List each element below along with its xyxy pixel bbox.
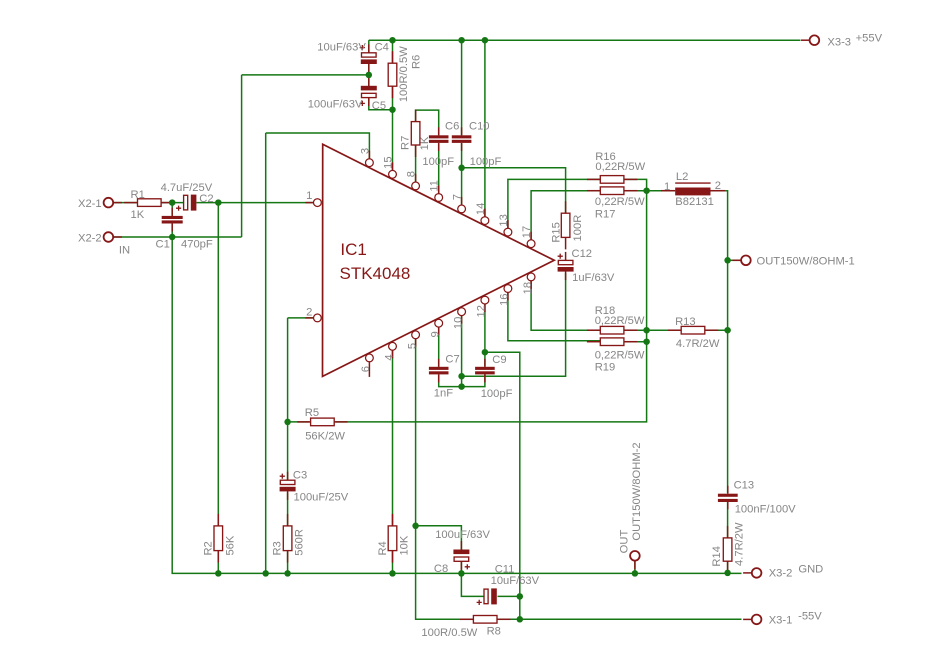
capacitor C1 bbox=[162, 208, 183, 232]
junction R4/bus bbox=[389, 570, 396, 577]
svg-text:R17: R17 bbox=[595, 209, 616, 221]
svg-text:C7: C7 bbox=[445, 353, 459, 365]
capacitor C10 bbox=[452, 127, 472, 151]
wire ground bus bbox=[172, 237, 741, 573]
wire R13 right bbox=[705, 329, 728, 331]
svg-text:OUT150W/8OHM-2: OUT150W/8OHM-2 bbox=[631, 442, 643, 540]
terminal X3-2 GND bbox=[743, 568, 761, 578]
wire C1 bottom bbox=[171, 224, 173, 237]
svg-text:560R: 560R bbox=[294, 529, 306, 556]
svg-text:2: 2 bbox=[715, 180, 721, 192]
junction C1/X2-2 bbox=[169, 234, 176, 241]
pin 15 of IC1 bbox=[389, 162, 397, 178]
pin 8 of IC1 bbox=[412, 174, 420, 190]
svg-text:100R: 100R bbox=[572, 215, 584, 242]
wire C8 bottom to ground bus bbox=[460, 561, 462, 573]
junction R16/R17/L2 bbox=[643, 187, 650, 194]
svg-text:100R/0.5W: 100R/0.5W bbox=[398, 46, 410, 102]
wire C4 top lead bbox=[368, 40, 370, 53]
svg-text:5: 5 bbox=[406, 343, 418, 349]
wire pin 2 bbox=[288, 317, 314, 319]
junction rail/pin14 bbox=[482, 37, 489, 44]
wire R7 bottom to pin 8 bbox=[415, 144, 417, 183]
terminal X3-3 +55V bbox=[801, 35, 819, 45]
wire C10 bottom to pin 7 bbox=[461, 143, 463, 206]
capacitor C9 bbox=[475, 359, 495, 383]
junction R8/bootstrap/X3-1 bbox=[517, 616, 524, 623]
wire C1 top bbox=[171, 203, 173, 216]
terminal X2-2 bbox=[104, 232, 122, 242]
svg-text:1: 1 bbox=[306, 190, 312, 202]
capacitor C4 bbox=[360, 44, 377, 72]
wire mid to input return bbox=[242, 74, 369, 76]
resistor R7 bbox=[411, 110, 420, 157]
junction R19 output bbox=[643, 338, 650, 345]
svg-text:IN: IN bbox=[119, 245, 130, 257]
wire C2 to pin 1 bbox=[196, 202, 314, 204]
svg-text:C4: C4 bbox=[375, 41, 389, 53]
resistor R8 bbox=[460, 616, 510, 624]
pin 13 of IC1 bbox=[504, 220, 512, 236]
svg-text:R7: R7 bbox=[399, 136, 411, 150]
wire pin 3 ground column bbox=[265, 133, 267, 573]
op-amp IC1 STK4048 body bbox=[323, 144, 555, 376]
junction pin3-gnd/bus bbox=[262, 570, 269, 577]
wire C7 C9 bottoms bbox=[439, 374, 485, 386]
wire +55V rail bbox=[369, 39, 801, 41]
svg-text:1uF/63V: 1uF/63V bbox=[572, 272, 615, 284]
pin 4 of IC1 bbox=[389, 342, 397, 358]
wire pin 18 to R18 bbox=[531, 277, 600, 330]
resistor R6 bbox=[388, 51, 397, 98]
wire pin 5 down to R8 bbox=[416, 335, 474, 620]
wire C3 to R3 bbox=[287, 493, 289, 526]
svg-text:11: 11 bbox=[429, 180, 441, 192]
capacitor C5 bbox=[360, 77, 377, 106]
terminal X2-1 bbox=[104, 198, 122, 208]
wire pin 16 to R19 bbox=[508, 289, 600, 341]
svg-text:16: 16 bbox=[499, 293, 511, 305]
capacitor C3 bbox=[280, 472, 296, 500]
junction R2/bus bbox=[215, 570, 222, 577]
svg-text:10uF/63V: 10uF/63V bbox=[317, 41, 366, 53]
junction C8/bus/C11 bbox=[458, 570, 465, 577]
junction pin10/C12 bbox=[458, 373, 465, 380]
terminal OUT150W/8OHM-1 bbox=[732, 255, 750, 265]
junction pin5/C8 bbox=[412, 523, 419, 530]
wire C4-C5 midpoint bbox=[368, 63, 370, 86]
junction C10/pin7/R15 bbox=[458, 165, 465, 172]
svg-text:100pF: 100pF bbox=[470, 156, 502, 168]
svg-text:7: 7 bbox=[452, 194, 464, 200]
svg-text:4: 4 bbox=[383, 354, 395, 360]
svg-text:100uF/25V: 100uF/25V bbox=[294, 492, 349, 504]
terminal X3-1 -55V bbox=[743, 615, 761, 625]
svg-text:4.7R/2W: 4.7R/2W bbox=[734, 522, 746, 566]
wire R6 bottom to pin 15 bbox=[392, 86, 394, 171]
wire R1 to C2 bbox=[161, 202, 184, 204]
svg-text:R3: R3 bbox=[272, 541, 284, 555]
svg-text:100nF/100V: 100nF/100V bbox=[735, 503, 796, 515]
svg-text:C13: C13 bbox=[734, 479, 755, 491]
junction R1/C1/C2 bbox=[169, 199, 176, 206]
capacitor C8 bbox=[453, 541, 470, 570]
wire branch to C8 bbox=[416, 526, 462, 550]
svg-text:X3-2: X3-2 bbox=[769, 568, 793, 580]
wire R4 to bus bbox=[392, 551, 394, 574]
svg-text:R1: R1 bbox=[131, 189, 145, 201]
svg-text:R8: R8 bbox=[487, 626, 501, 638]
resistor R18 bbox=[587, 326, 637, 334]
svg-text:R6: R6 bbox=[411, 55, 423, 69]
wire pin 13 to R16 bbox=[508, 179, 600, 230]
resistor R19 bbox=[587, 338, 637, 346]
inductor L2 B82131 bbox=[661, 183, 725, 195]
resistor R3 bbox=[283, 514, 292, 563]
svg-text:C6: C6 bbox=[445, 121, 459, 133]
junction R14/bus bbox=[724, 570, 731, 577]
wire down to R2 bbox=[217, 203, 219, 526]
wire pin 3 to ground bbox=[266, 133, 370, 160]
svg-text:R5: R5 bbox=[305, 407, 319, 419]
svg-text:17: 17 bbox=[521, 226, 533, 238]
terminal OUT150W/8OHM-2 bbox=[630, 551, 640, 569]
wire R3 to bus bbox=[287, 551, 289, 574]
junction pin2/R5 bbox=[284, 419, 291, 426]
pin 9 of IC1 bbox=[435, 319, 443, 335]
wire to C12 bottom bbox=[462, 273, 566, 376]
wire R14 to bus bbox=[727, 561, 729, 573]
pin 6 of IC1 bbox=[366, 354, 374, 377]
resistor R16 bbox=[587, 176, 637, 184]
svg-text:R14: R14 bbox=[711, 546, 723, 567]
wire C11 right bbox=[498, 595, 520, 597]
wire L2 right down to C13 bbox=[711, 191, 728, 494]
svg-text:100uF/63V: 100uF/63V bbox=[435, 529, 490, 541]
svg-text:X3-3: X3-3 bbox=[827, 36, 851, 48]
svg-text:6: 6 bbox=[360, 366, 372, 372]
svg-text:0,22R/5W: 0,22R/5W bbox=[595, 161, 645, 173]
wire R2 to bus bbox=[217, 551, 219, 574]
wire R18 right to R13 bbox=[624, 329, 681, 331]
wire rail to C10 top bbox=[461, 40, 463, 135]
junction R13/zobel bbox=[724, 327, 731, 334]
svg-text:0,22R/5W: 0,22R/5W bbox=[595, 315, 645, 327]
svg-text:B82131: B82131 bbox=[675, 196, 714, 208]
resistor R2 bbox=[214, 514, 223, 563]
junction R18/R13 bbox=[643, 327, 650, 334]
svg-text:R2: R2 bbox=[203, 541, 215, 555]
svg-text:R19: R19 bbox=[595, 361, 616, 373]
svg-text:470pF: 470pF bbox=[181, 238, 213, 250]
wire C13 to R14 bbox=[727, 502, 729, 538]
svg-text:18: 18 bbox=[522, 282, 534, 294]
junction pin12/C9/bootstrap bbox=[482, 349, 489, 356]
svg-text:C10: C10 bbox=[469, 121, 490, 133]
wire pin 9 to C7 bbox=[438, 324, 440, 367]
capacitor C13 bbox=[718, 486, 738, 510]
wire R19 right bbox=[624, 341, 647, 343]
svg-text:OUT150W/8OHM-1: OUT150W/8OHM-1 bbox=[757, 256, 855, 268]
wire to C11 left bbox=[461, 573, 484, 596]
svg-text:56K/2W: 56K/2W bbox=[305, 430, 345, 442]
svg-text:9: 9 bbox=[430, 331, 442, 337]
wire rail to pin 14 bbox=[484, 40, 486, 217]
svg-text:L2: L2 bbox=[676, 171, 688, 183]
svg-text:3: 3 bbox=[359, 148, 371, 154]
junction C2/pin1/R2 bbox=[215, 199, 222, 206]
junction rail/C10 bbox=[458, 37, 465, 44]
svg-text:R13: R13 bbox=[675, 316, 696, 328]
junction rail/R6 bbox=[389, 37, 396, 44]
svg-text:GND: GND bbox=[798, 564, 823, 576]
pin 10 of IC1 bbox=[458, 308, 466, 324]
svg-text:C12: C12 bbox=[572, 248, 593, 260]
wire bootstrap branch bbox=[485, 352, 520, 619]
pin 18 of IC1 bbox=[527, 273, 535, 289]
svg-text:X2-2: X2-2 bbox=[78, 232, 102, 244]
svg-text:4.7R/2W: 4.7R/2W bbox=[676, 338, 720, 350]
svg-text:100R/0.5W: 100R/0.5W bbox=[421, 627, 477, 639]
svg-text:10: 10 bbox=[452, 317, 464, 329]
svg-text:8: 8 bbox=[406, 171, 418, 177]
svg-text:X3-1: X3-1 bbox=[769, 615, 793, 627]
svg-text:0,22R/5W: 0,22R/5W bbox=[595, 196, 645, 208]
capacitor C12 bbox=[558, 252, 574, 280]
svg-text:R4: R4 bbox=[377, 541, 389, 555]
resistor R4 bbox=[388, 514, 397, 563]
svg-text:1: 1 bbox=[664, 181, 670, 193]
svg-text:100pF: 100pF bbox=[481, 388, 513, 400]
wire R6 top bbox=[392, 40, 394, 63]
resistor R1 bbox=[124, 199, 174, 207]
svg-text:C11: C11 bbox=[495, 563, 515, 575]
wire pin 4 to R4 bbox=[392, 346, 394, 526]
svg-text:56K: 56K bbox=[224, 535, 236, 555]
svg-text:13: 13 bbox=[498, 214, 510, 226]
wire R8 to X3-1 bbox=[496, 618, 741, 620]
pin 12 of IC1 bbox=[481, 296, 489, 312]
junction C11/bootstrap bbox=[517, 593, 524, 600]
svg-text:C5: C5 bbox=[372, 100, 386, 112]
wire pin7 node to R15 top bbox=[462, 168, 566, 213]
wire to L2 bbox=[647, 190, 676, 192]
resistor R17 bbox=[587, 187, 637, 195]
wire X2-2 bbox=[113, 236, 242, 238]
resistor R5 bbox=[297, 418, 347, 426]
wire pin 12 to C9 bbox=[484, 300, 486, 367]
capacitor C11 bbox=[477, 588, 497, 605]
svg-text:OUT: OUT bbox=[619, 530, 631, 554]
svg-text:100pF: 100pF bbox=[422, 156, 454, 168]
svg-text:0,22R/5W: 0,22R/5W bbox=[595, 350, 645, 362]
svg-text:+55V: +55V bbox=[856, 33, 883, 45]
pin 5 of IC1 bbox=[412, 331, 420, 347]
svg-text:10uF/63V: 10uF/63V bbox=[491, 575, 540, 587]
wire R5 left bbox=[288, 421, 310, 423]
junction C7/C9 bbox=[458, 383, 465, 390]
pin 11 of IC1 bbox=[435, 186, 443, 202]
svg-text:STK4048: STK4048 bbox=[340, 264, 411, 283]
pin 2 of IC1 bbox=[305, 314, 321, 322]
svg-text:C1: C1 bbox=[156, 238, 170, 250]
junction L2/OUT-1 bbox=[724, 257, 731, 264]
wire C5 bottom to R6 node bbox=[369, 98, 393, 110]
wire R17 right bbox=[624, 190, 647, 192]
svg-text:100uF/63V: 100uF/63V bbox=[308, 99, 363, 111]
pin 1 of IC1 bbox=[305, 199, 321, 207]
svg-text:C3: C3 bbox=[293, 469, 307, 481]
svg-text:C9: C9 bbox=[492, 354, 506, 366]
wire R7 top to C6 top bbox=[416, 110, 439, 135]
wire to OUT-1 terminal bbox=[728, 259, 742, 261]
pin 3 of IC1 bbox=[366, 151, 374, 167]
svg-text:-55V: -55V bbox=[798, 610, 822, 622]
wire OUT-2 to bus bbox=[634, 560, 636, 573]
svg-text:R15: R15 bbox=[550, 222, 562, 243]
wire C6 bottom to pin 11 bbox=[438, 143, 440, 194]
svg-text:1K: 1K bbox=[131, 209, 145, 221]
junction OUT-2/bus bbox=[632, 570, 639, 577]
svg-text:14: 14 bbox=[475, 203, 487, 215]
svg-text:1K: 1K bbox=[419, 136, 431, 150]
wire pin 17 to R17 bbox=[531, 191, 600, 243]
pin 14 of IC1 bbox=[481, 209, 489, 225]
wire pin 10 down bbox=[461, 312, 463, 387]
pin 17 of IC1 bbox=[527, 232, 535, 248]
junction R3/bus bbox=[284, 570, 291, 577]
svg-text:X2-1: X2-1 bbox=[78, 198, 102, 210]
pin 16 of IC1 bbox=[504, 285, 512, 301]
svg-text:12: 12 bbox=[476, 305, 488, 317]
resistor R13 bbox=[668, 326, 718, 334]
svg-text:C8: C8 bbox=[434, 563, 448, 575]
pin 7 of IC1 bbox=[458, 197, 466, 213]
capacitor C6 bbox=[429, 127, 449, 151]
wire vertical to X2-2 line bbox=[241, 75, 243, 237]
capacitor C2 bbox=[176, 195, 196, 211]
svg-text:15: 15 bbox=[382, 156, 394, 168]
wire output node / feedback to R5 bbox=[335, 179, 646, 422]
junction C4/C5 bbox=[366, 72, 373, 79]
wire X2-1 to R1 bbox=[113, 202, 138, 204]
wire pin 2 column to C3 bbox=[287, 318, 289, 480]
svg-text:1nF: 1nF bbox=[434, 388, 453, 400]
svg-text:2: 2 bbox=[306, 307, 312, 319]
junction C5/R6/pin15 bbox=[389, 106, 396, 113]
svg-text:10K: 10K bbox=[399, 535, 411, 555]
resistor R15 bbox=[561, 201, 570, 249]
resistor R14 bbox=[723, 526, 732, 573]
svg-text:C2: C2 bbox=[199, 193, 213, 205]
svg-text:IC1: IC1 bbox=[340, 240, 366, 259]
capacitor C7 bbox=[429, 359, 449, 383]
